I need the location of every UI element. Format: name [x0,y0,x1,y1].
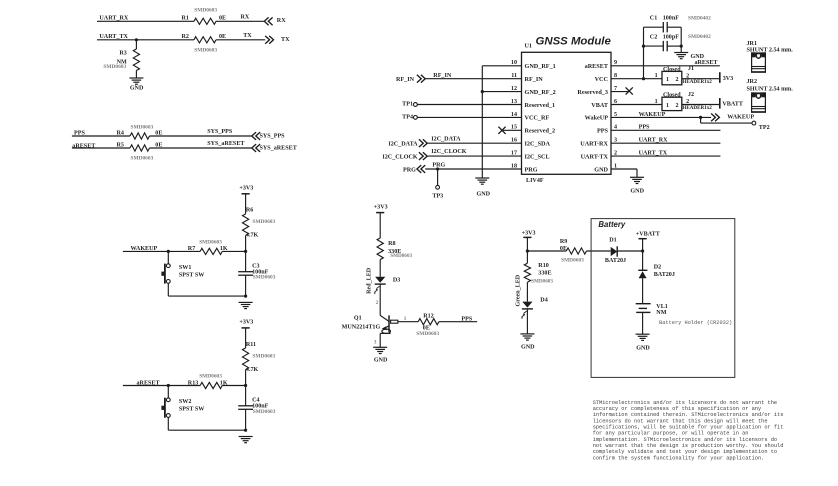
svg-text:GND: GND [477,191,491,197]
svg-text:confirm the system functionali: confirm the system functionality for you… [593,455,765,461]
svg-text:I2C_SDA: I2C_SDA [525,141,551,148]
svg-text:SMD0603: SMD0603 [253,275,276,281]
svg-text:Closed: Closed [663,67,681,73]
svg-text:SMD0603: SMD0603 [103,64,126,70]
svg-text:0E: 0E [219,16,226,22]
svg-text:1K: 1K [220,246,228,252]
svg-text:SW1: SW1 [179,265,192,271]
svg-text:WakeUP: WakeUP [585,115,609,122]
svg-text:GND: GND [130,85,144,91]
svg-text:J1: J1 [688,66,694,72]
svg-text:UART_RX: UART_RX [639,138,668,144]
svg-text:SMD0603: SMD0603 [253,409,276,415]
svg-text:completely validate and test: completely validate and test your design… [593,449,777,455]
svg-text:R2: R2 [182,34,189,40]
svg-text:3V3: 3V3 [723,76,734,82]
svg-text:HEADER1x2: HEADER1x2 [682,79,712,85]
svg-text:+3V3: +3V3 [374,204,388,210]
svg-text:RF_IN: RF_IN [396,77,415,83]
svg-text:4: 4 [614,125,617,131]
svg-text:SMD0603: SMD0603 [194,48,217,54]
svg-text:aRESET: aRESET [694,60,717,66]
svg-text:J2: J2 [688,92,694,98]
svg-text:NM: NM [656,310,666,316]
svg-text:SMD0603: SMD0603 [561,258,584,264]
svg-text:0E: 0E [560,246,567,252]
svg-text:PRG: PRG [403,167,416,173]
svg-text:SMD0603: SMD0603 [131,156,154,162]
svg-text:GND: GND [636,345,650,351]
svg-text:PPS: PPS [74,130,85,136]
svg-text:I2C_SCL: I2C_SCL [525,153,550,160]
svg-text:UART_TX: UART_TX [99,34,128,40]
svg-text:1: 1 [404,316,407,322]
svg-text:accuracy or completeness of th: accuracy or completeness of this specifi… [593,406,761,412]
svg-text:JR1: JR1 [747,41,758,47]
svg-text:specifications, will be suitab: specifications, will be suitable for you… [593,424,784,430]
svg-text:13: 13 [511,99,517,105]
svg-text:VBATT: VBATT [722,102,743,108]
svg-text:TP4: TP4 [402,115,413,121]
svg-text:UART_TX: UART_TX [639,151,668,157]
svg-text:LIV4F: LIV4F [526,178,544,184]
svg-text:SMD0603: SMD0603 [531,279,553,285]
svg-text:SMD0603: SMD0603 [131,124,154,130]
svg-text:SMD0402: SMD0402 [688,34,711,40]
svg-text:BAT20J: BAT20J [605,258,626,264]
svg-text:330E: 330E [538,271,551,277]
svg-text:SMD0402: SMD0402 [688,15,711,21]
svg-text:+3V3: +3V3 [239,320,253,326]
svg-text:PPS: PPS [639,125,650,131]
svg-text:I2C_CLOCK: I2C_CLOCK [431,149,466,155]
svg-text:PRG: PRG [432,162,445,168]
svg-text:VCC_RF: VCC_RF [525,115,550,122]
svg-text:GND: GND [521,345,535,351]
svg-text:SYS_aRESET: SYS_aRESET [207,141,244,147]
svg-text:WAKEUP: WAKEUP [727,115,754,121]
svg-text:HEADER1x2: HEADER1x2 [682,105,712,111]
svg-text:4.7K: 4.7K [246,367,259,373]
svg-text:1K: 1K [220,380,228,386]
svg-text:R7: R7 [188,246,195,252]
svg-text:R8: R8 [388,241,395,247]
svg-text:D4: D4 [540,297,547,303]
svg-text:15: 15 [511,125,517,131]
svg-text:SMD0603: SMD0603 [390,253,412,259]
svg-text:UART_RX: UART_RX [99,15,128,21]
svg-text:3: 3 [374,340,377,346]
svg-text:R12: R12 [423,313,434,319]
svg-text:100nF: 100nF [663,16,680,22]
svg-text:GND: GND [594,166,608,173]
svg-text:3: 3 [614,138,617,144]
svg-text:0E: 0E [155,130,162,136]
svg-text:11: 11 [511,73,517,79]
svg-text:2: 2 [376,300,379,306]
svg-text:TP1: TP1 [402,102,413,108]
svg-text:+VBATT: +VBATT [636,232,660,238]
svg-text:Red_LED: Red_LED [367,267,373,294]
svg-text:R1: R1 [182,16,189,22]
svg-text:PRG: PRG [525,166,538,173]
svg-text:implementation. STMicroelectro: implementation. STMicroelectronics and/o… [593,437,777,443]
svg-text:Q1: Q1 [354,315,362,321]
svg-text:R9: R9 [560,239,567,245]
svg-text:licensors do not warrant that: licensors do not warrant that this desig… [593,418,768,424]
svg-text:aRESET: aRESET [585,63,609,70]
svg-text:VL1: VL1 [656,304,668,310]
svg-text:information contained therein: information contained therein. STMicroel… [593,412,784,418]
svg-text:RX: RX [277,18,286,24]
svg-text:GNSS Module: GNSS Module [536,36,612,48]
svg-text:9: 9 [614,60,617,66]
svg-text:I2C_DATA: I2C_DATA [388,142,418,148]
svg-text:Battery Holder (CR2032): Battery Holder (CR2032) [659,320,732,326]
svg-text:SMD0603: SMD0603 [199,374,222,380]
svg-text:C2: C2 [650,34,657,40]
svg-text:100pF: 100pF [663,34,680,40]
svg-text:C1: C1 [650,16,657,22]
svg-text:16: 16 [511,138,517,144]
svg-text:Closed: Closed [663,93,681,99]
svg-text:RX: RX [241,15,250,21]
svg-text:SPST SW: SPST SW [179,273,204,279]
svg-text:Battery: Battery [598,220,626,229]
svg-text:18: 18 [511,163,517,169]
svg-text:1: 1 [666,77,669,83]
svg-text:UART-TX: UART-TX [581,153,609,160]
svg-text:not warrant that the design i: not warrant that the design is productio… [593,443,784,449]
svg-text:R4: R4 [117,130,124,136]
svg-text:Reserved_1: Reserved_1 [525,102,556,109]
svg-text:Green_LED: Green_LED [515,274,521,306]
svg-text:R13: R13 [188,380,199,386]
svg-text:D3: D3 [393,278,400,284]
svg-text:UART-RX: UART-RX [580,141,608,148]
svg-text:+3V3: +3V3 [522,230,536,236]
svg-text:1: 1 [614,163,617,169]
svg-text:R6: R6 [246,208,253,214]
svg-text:SHUNT 2.54 mm.: SHUNT 2.54 mm. [747,87,794,93]
svg-text:0E: 0E [219,34,226,40]
svg-text:SMD0603: SMD0603 [199,240,222,246]
svg-text:GND_RF_1: GND_RF_1 [525,63,556,70]
svg-text:SYS_aRESET: SYS_aRESET [260,145,297,151]
svg-text:SMD0603: SMD0603 [252,219,275,225]
svg-text:TP2: TP2 [759,125,770,131]
svg-text:5: 5 [614,112,617,118]
svg-text:D2: D2 [654,265,661,271]
svg-text:aRESET: aRESET [137,380,160,386]
svg-text:I2C_DATA: I2C_DATA [431,137,461,143]
svg-text:SMD0603: SMD0603 [416,331,439,337]
svg-text:GND: GND [630,188,644,194]
svg-text:7: 7 [614,86,617,92]
svg-text:GND_RF_2: GND_RF_2 [525,89,556,96]
svg-text:aRESET: aRESET [72,144,95,150]
svg-text:4.7K: 4.7K [246,233,259,239]
svg-text:SYS_PPS: SYS_PPS [207,129,233,135]
svg-text:WAKEUP: WAKEUP [131,246,158,252]
svg-text:1: 1 [666,103,669,109]
svg-text:I2C_CLOCK: I2C_CLOCK [382,155,417,161]
svg-text:JR2: JR2 [747,79,758,85]
svg-text:C4: C4 [252,397,259,403]
svg-text:SMD0603: SMD0603 [194,8,217,14]
svg-text:R5: R5 [117,142,124,148]
svg-text:2: 2 [676,77,679,83]
svg-text:WAKEUP: WAKEUP [639,112,666,118]
svg-text:SHUNT 2.54 mm.: SHUNT 2.54 mm. [747,48,794,54]
svg-text:STMicroelectronics and/or its: STMicroelectronics and/or its licensors … [593,400,777,406]
svg-text:RF_IN: RF_IN [525,76,544,83]
svg-text:RF_IN: RF_IN [433,73,452,79]
svg-text:8: 8 [614,73,617,79]
svg-text:TX: TX [281,37,290,43]
svg-text:TX: TX [243,33,252,39]
svg-text:MUN2214T1G: MUN2214T1G [342,325,381,331]
svg-text:6: 6 [614,99,617,105]
svg-text:17: 17 [511,151,517,157]
svg-text:TP3: TP3 [432,194,443,200]
svg-text:SPST SW: SPST SW [179,407,204,413]
svg-text:GND: GND [374,358,388,364]
svg-text:0E: 0E [155,142,162,148]
svg-text:SMD0603: SMD0603 [252,353,275,359]
svg-text:R11: R11 [246,342,256,348]
svg-text:+3V3: +3V3 [239,185,253,191]
svg-text:for any particular purpose, or: for any particular purpose, or will oper… [593,431,749,437]
svg-text:1: 1 [655,73,658,79]
svg-text:VBAT: VBAT [591,102,609,109]
svg-text:R10: R10 [538,263,549,269]
svg-text:PPS: PPS [597,128,609,135]
svg-text:R3: R3 [119,51,126,57]
svg-text:2: 2 [614,151,617,157]
svg-text:10: 10 [511,60,517,66]
svg-text:C3: C3 [252,263,259,269]
svg-text:12: 12 [511,86,517,92]
svg-text:2: 2 [676,103,679,109]
svg-text:1: 1 [655,99,658,105]
svg-text:D1: D1 [609,238,616,244]
svg-text:Reserved_2: Reserved_2 [525,128,556,135]
svg-text:SW2: SW2 [179,399,192,405]
svg-text:BAT20J: BAT20J [654,272,675,278]
svg-text:VCC: VCC [595,76,608,83]
svg-text:SYS_PPS: SYS_PPS [260,133,286,139]
svg-text:PPS: PPS [461,316,472,322]
svg-text:14: 14 [511,112,517,118]
svg-text:U1: U1 [525,44,532,50]
svg-text:GND: GND [691,54,705,60]
svg-text:Reserved_3: Reserved_3 [577,89,608,96]
